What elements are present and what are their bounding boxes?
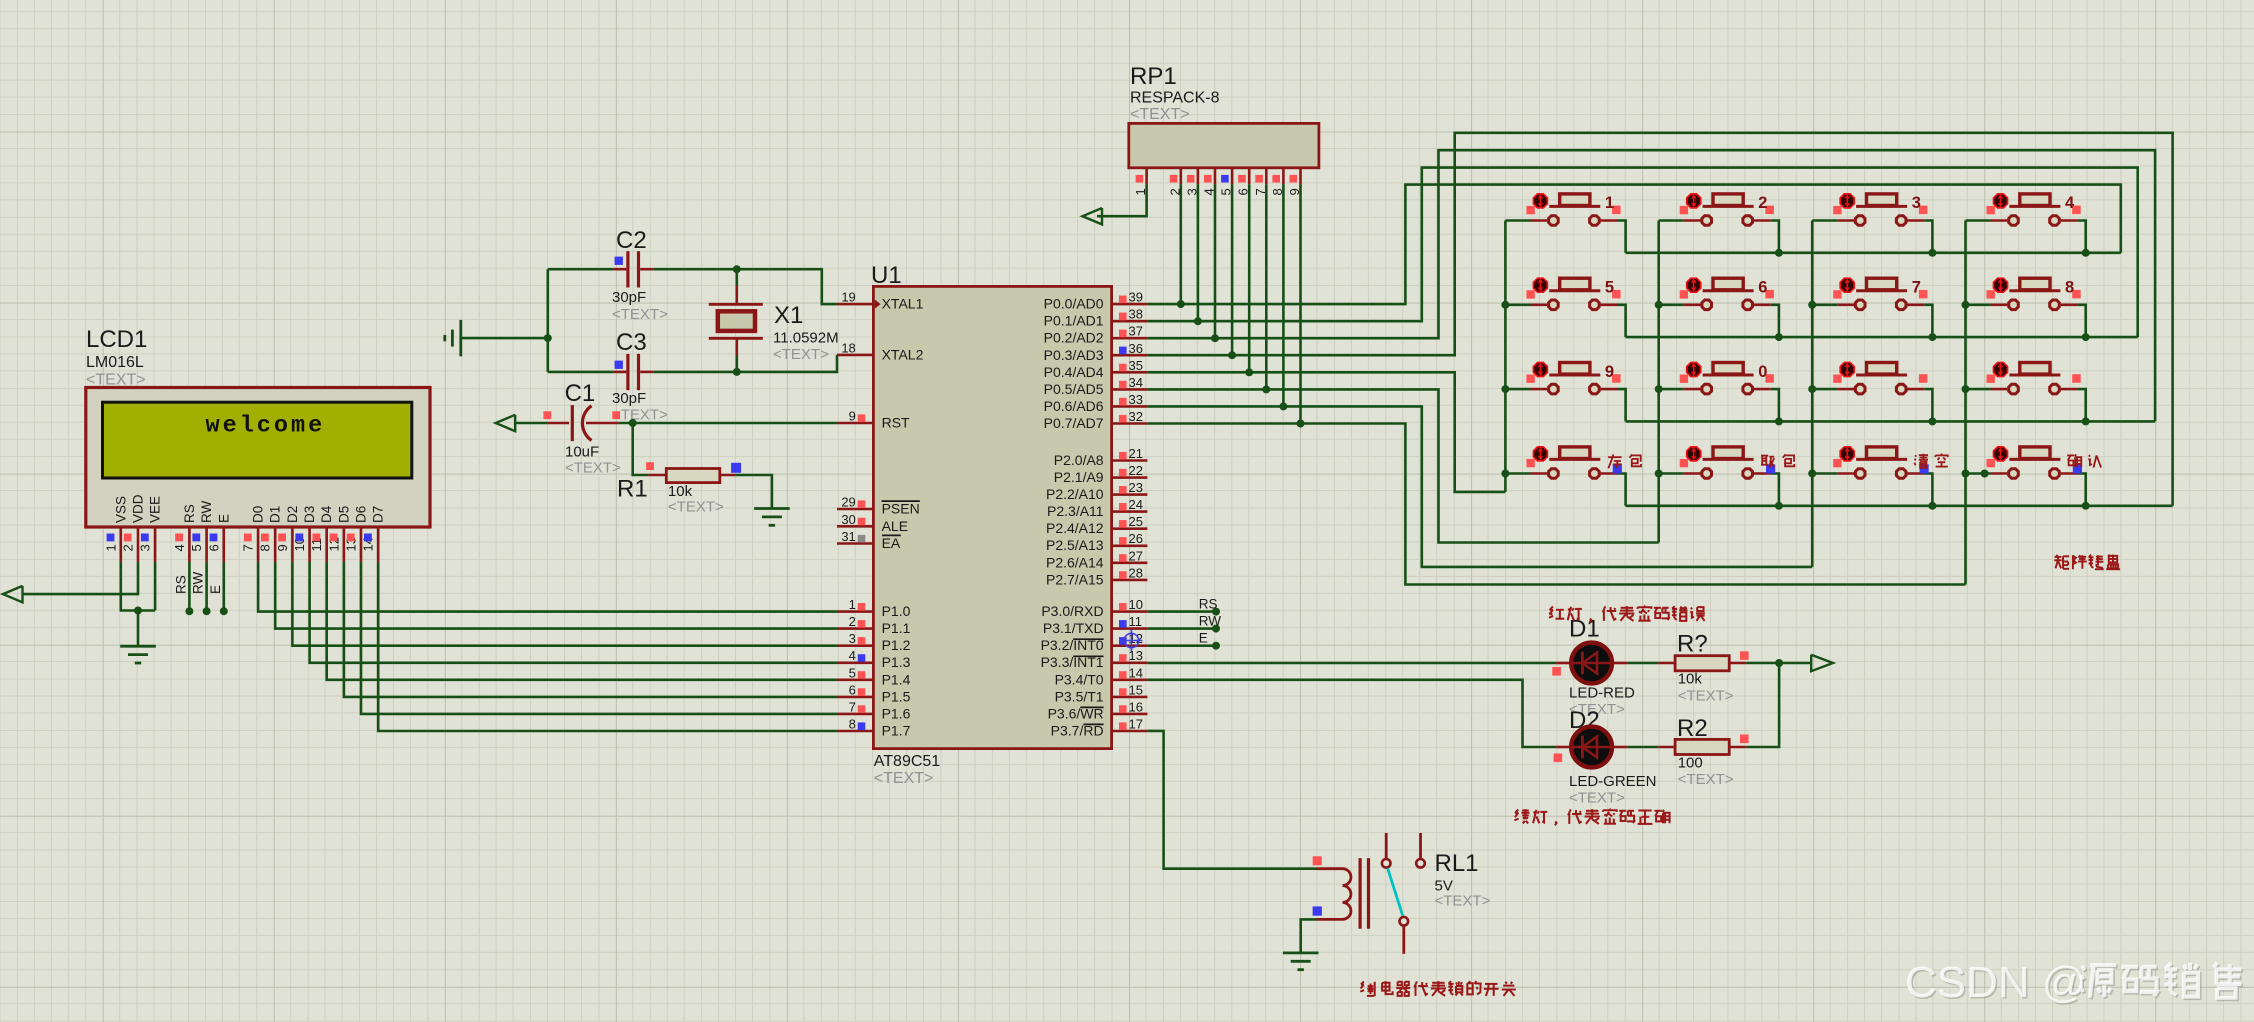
svg-text:VSS: VSS [113, 496, 128, 523]
wire D2 to R2 [1627, 746, 1658, 749]
svg-text:38: 38 [1129, 307, 1143, 322]
svg-text:E: E [1199, 631, 1208, 646]
svg-text:31: 31 [841, 529, 855, 544]
svg-text:P3.5/T1: P3.5/T1 [1055, 688, 1104, 704]
svg-text:welcome: welcome [206, 413, 326, 440]
svg-text:28: 28 [1129, 565, 1143, 580]
wire D1-R? net to arrow [1746, 662, 1811, 665]
svg-text:P1.5: P1.5 [882, 688, 911, 704]
svg-text:RS: RS [173, 575, 188, 594]
svg-text:P2.3/A11: P2.3/A11 [1047, 503, 1104, 519]
svg-text:RS: RS [182, 504, 197, 523]
svg-text:18: 18 [841, 340, 855, 355]
svg-text:LED-RED: LED-RED [1569, 685, 1635, 702]
svg-text:34: 34 [1129, 375, 1143, 390]
svg-text:5: 5 [189, 544, 204, 551]
push button row1 col1 label 1 [1505, 219, 1530, 222]
svg-text:2: 2 [121, 544, 136, 551]
RP1 pin 5 [1231, 168, 1234, 185]
wire LCD pin1 VSS to ground node [121, 562, 155, 611]
svg-text:16: 16 [1129, 699, 1143, 714]
svg-text:8: 8 [2065, 279, 2074, 297]
svg-text:9: 9 [275, 544, 290, 551]
svg-text:P1.4: P1.4 [882, 671, 911, 687]
wire LCD RW pin5 with net dot [205, 562, 208, 611]
wire P0.0 to keypad row1 [1147, 185, 2120, 305]
push button row2 col1 label 5 [1505, 303, 1530, 306]
wire P3.3 to LED D1 [1147, 662, 1556, 665]
wire C2 left to C3 left vertical [546, 269, 549, 372]
svg-text:D2: D2 [285, 506, 300, 523]
wires LCD D0-D7 to U1 P1.0-P1.7 [258, 562, 837, 612]
RP1 pin 4 [1214, 168, 1217, 185]
wire P0.3 to keypad row4 [1147, 133, 2172, 506]
U1 pins 39-32 P0.0-P0.7 [1112, 303, 1148, 306]
svg-text:P1.0: P1.0 [882, 603, 911, 619]
svg-text:5: 5 [1605, 279, 1614, 297]
svg-text:C2: C2 [616, 227, 647, 254]
svg-text:ALE: ALE [882, 518, 908, 534]
svg-text:E: E [208, 585, 223, 594]
svg-text:P2.5/A13: P2.5/A13 [1046, 537, 1104, 553]
svg-text:RW: RW [199, 500, 214, 523]
svg-text:P0.6/AD6: P0.6/AD6 [1044, 398, 1104, 414]
svg-text:10: 10 [1129, 597, 1143, 612]
wire P0.1 to keypad row2 [1147, 168, 2137, 338]
svg-text:R2: R2 [1677, 715, 1708, 742]
wire down to R1 [633, 423, 649, 475]
RP1 pin 7 [1265, 168, 1268, 185]
svg-text:9: 9 [1605, 363, 1614, 381]
svg-text:22: 22 [1129, 463, 1143, 478]
wire P0.5 to keypad column2 [1147, 389, 1658, 542]
svg-text:3: 3 [849, 631, 856, 646]
push button row3 col1 label 9 [1505, 388, 1530, 391]
svg-text:2: 2 [849, 614, 856, 629]
label matrix keyboard [2056, 555, 2058, 557]
wire LCD pin3 VEE down [154, 562, 157, 611]
svg-text:D6: D6 [354, 506, 369, 523]
svg-text:14: 14 [1129, 665, 1143, 680]
wires RP1 pins 2-9 to P0 bus [1180, 184, 1183, 304]
push button row2 col2 label 6 [1659, 303, 1684, 306]
svg-text:17: 17 [1129, 717, 1143, 732]
wire ground to capacitors [462, 337, 548, 340]
svg-text:<TEXT>: <TEXT> [1678, 688, 1734, 705]
wire D1 to R? [1627, 662, 1658, 665]
svg-text:LCD1: LCD1 [86, 326, 147, 353]
svg-text:7: 7 [241, 544, 256, 551]
U1 pin 18 XTAL2 [837, 354, 873, 357]
svg-text:5: 5 [849, 665, 856, 680]
svg-text:VDD: VDD [131, 494, 146, 523]
svg-text:<TEXT>: <TEXT> [612, 407, 668, 424]
ground below R1 [754, 507, 790, 510]
svg-text:P0.2/AD2: P0.2/AD2 [1044, 330, 1104, 346]
ground left of capacitors [459, 320, 462, 356]
XTAL1 clock input mark [875, 300, 881, 309]
svg-text:P0.3/AD3: P0.3/AD3 [1044, 347, 1104, 363]
annotation green LED meaning [1515, 809, 1518, 813]
svg-text:1: 1 [1605, 194, 1614, 212]
svg-text:30pF: 30pF [612, 289, 646, 306]
svg-text:P2.1/A9: P2.1/A9 [1054, 469, 1104, 485]
svg-text:26: 26 [1129, 531, 1143, 546]
wire P3.1 RW net [1147, 627, 1216, 630]
push button row4 col1 label 存包 [1505, 472, 1530, 475]
svg-text:P0.7/AD7: P0.7/AD7 [1044, 415, 1104, 431]
svg-text:P2.4/A12: P2.4/A12 [1046, 520, 1104, 536]
svg-text:100: 100 [1678, 755, 1703, 772]
power terminal arrow left of RP1 pin1 [1083, 208, 1103, 224]
U1 pin 9 RST [837, 422, 873, 425]
svg-text:<TEXT>: <TEXT> [612, 306, 668, 323]
svg-text:P0.5/AD5: P0.5/AD5 [1044, 381, 1104, 397]
svg-text:6: 6 [206, 544, 221, 551]
relay switch [1385, 833, 1388, 858]
svg-text:8: 8 [258, 544, 273, 551]
origin marker at pin 12 [1124, 633, 1138, 647]
svg-text:P2.7/A15: P2.7/A15 [1046, 571, 1104, 587]
wire C2 right to XTAL1 [654, 269, 837, 304]
svg-text:29: 29 [841, 495, 855, 510]
svg-text:11: 11 [1129, 614, 1143, 629]
svg-text:RESPACK-8: RESPACK-8 [1130, 90, 1220, 107]
power terminal arrow left of LCD [3, 586, 23, 602]
svg-text:<TEXT>: <TEXT> [874, 770, 934, 787]
wire P3.2 E net [1147, 644, 1216, 647]
ground below LCD [120, 645, 156, 648]
svg-text:4: 4 [172, 544, 187, 551]
power terminal arrow right [1811, 655, 1833, 671]
svg-text:PSEN: PSEN [882, 501, 920, 517]
wire P0.2 to keypad row3 [1147, 150, 2155, 421]
wire R1 to ground [736, 475, 772, 509]
svg-text:33: 33 [1129, 392, 1143, 407]
svg-text:VEE: VEE [148, 496, 163, 523]
U1 pins 10-17 P3.0-P3.7 [1112, 610, 1148, 613]
svg-text:XTAL2: XTAL2 [882, 346, 924, 362]
svg-text:LED-GREEN: LED-GREEN [1569, 773, 1657, 790]
U1 pins 1-8 P1.0-P1.7 [837, 610, 873, 613]
svg-text:D1: D1 [268, 506, 283, 523]
resistor R1 10k [646, 462, 654, 470]
svg-text:3: 3 [1912, 194, 1921, 212]
svg-text:4: 4 [849, 648, 856, 663]
push button row1 col4 label 4 [1966, 219, 1991, 222]
U1 pin 31 EA [837, 542, 873, 545]
svg-text:RL1: RL1 [1435, 850, 1479, 877]
RP1 pin 1 [1145, 168, 1148, 185]
svg-text:36: 36 [1129, 341, 1143, 356]
wire C2 left segment [548, 268, 614, 271]
svg-text:XTAL1: XTAL1 [882, 296, 924, 312]
keypad column lines [1504, 221, 1507, 492]
wire RP1 pin1 to power arrow [1097, 184, 1147, 216]
svg-text:35: 35 [1129, 358, 1143, 373]
extra junction row4 col4 [1981, 470, 1989, 478]
svg-text:9: 9 [849, 409, 856, 424]
svg-text:D3: D3 [302, 506, 317, 523]
svg-text:LM016L: LM016L [86, 354, 144, 371]
svg-text:<TEXT>: <TEXT> [1569, 790, 1625, 807]
svg-text:R?: R? [1677, 631, 1708, 658]
ground below relay [1283, 952, 1319, 955]
RP1 pin 8 [1282, 168, 1285, 185]
svg-text:D5: D5 [336, 506, 351, 523]
keypad row lines [1626, 252, 2121, 255]
wire P3.0 RS net [1147, 610, 1216, 613]
svg-text:6: 6 [1758, 279, 1767, 297]
svg-text:1: 1 [849, 597, 856, 612]
svg-text:19: 19 [841, 290, 855, 305]
svg-text:27: 27 [1129, 548, 1143, 563]
svg-text:24: 24 [1129, 497, 1143, 512]
svg-text:P1.1: P1.1 [882, 620, 911, 636]
svg-text:3: 3 [138, 544, 153, 551]
svg-text:32: 32 [1129, 409, 1143, 424]
svg-text:X1: X1 [774, 302, 803, 329]
svg-text:P1.2: P1.2 [882, 637, 911, 653]
svg-text:P1.6: P1.6 [882, 705, 911, 721]
svg-text:11.0592M: 11.0592M [773, 330, 839, 347]
svg-text:D7: D7 [371, 506, 386, 523]
svg-text:P0.0/AD0: P0.0/AD0 [1044, 296, 1104, 312]
svg-text:RW: RW [1199, 614, 1222, 629]
svg-text:D4: D4 [319, 505, 334, 523]
svg-text:RW: RW [191, 571, 206, 594]
wire C3 right to XTAL2 [654, 355, 837, 372]
svg-text:P3.4/T0: P3.4/T0 [1055, 671, 1104, 687]
svg-text:<TEXT>: <TEXT> [1435, 893, 1491, 910]
U1 pin 30 ALE [837, 525, 873, 528]
RP1 pin 2 [1180, 168, 1183, 185]
svg-text:15: 15 [1129, 682, 1143, 697]
wire relay coil to ground [1301, 919, 1317, 953]
svg-text:10uF: 10uF [565, 444, 599, 461]
svg-text:23: 23 [1129, 480, 1143, 495]
svg-text:<TEXT>: <TEXT> [1130, 106, 1190, 123]
svg-text:P3.0/RXD: P3.0/RXD [1041, 603, 1103, 619]
svg-text:R1: R1 [617, 476, 648, 503]
push button row1 col3 label 3 [1812, 219, 1837, 222]
svg-text:P0.1/AD1: P0.1/AD1 [1044, 313, 1104, 329]
svg-text:P2.2/A10: P2.2/A10 [1046, 486, 1104, 502]
svg-text:P0.4/AD4: P0.4/AD4 [1044, 364, 1104, 380]
svg-text:RST: RST [882, 415, 910, 431]
overlines INT0 INT1 WR RD [1073, 638, 1103, 640]
svg-text:1: 1 [103, 544, 118, 551]
wire junction down to R2 [1746, 663, 1779, 747]
push button row3 col2 label 0 [1659, 388, 1684, 391]
push button row4 col2 label 取包 [1659, 472, 1684, 475]
svg-text:C3: C3 [616, 329, 647, 356]
U1 pins 21-28 P2.0-P2.7 [1112, 459, 1148, 462]
push button row2 col4 label 8 [1966, 303, 1991, 306]
svg-text:25: 25 [1129, 514, 1143, 529]
wire P3.7 to relay coil [1147, 731, 1316, 869]
U1 pin 29 PSEN [837, 508, 873, 511]
relay core [1358, 858, 1361, 929]
wire P0.4 to keypad column1 [1147, 372, 1505, 492]
svg-text:4: 4 [2065, 194, 2075, 212]
svg-text:C1: C1 [565, 380, 596, 407]
svg-text:39: 39 [1129, 290, 1143, 305]
svg-text:<TEXT>: <TEXT> [773, 346, 829, 363]
junction ground stem [134, 607, 142, 615]
svg-text:21: 21 [1129, 446, 1143, 461]
LCD screen showing welcome [103, 402, 412, 478]
push button row4 col3 label 清空 [1812, 472, 1837, 475]
svg-text:10k: 10k [668, 483, 693, 500]
svg-text:P1.7: P1.7 [882, 723, 911, 739]
svg-text:10k: 10k [1678, 671, 1703, 688]
svg-text:0: 0 [1758, 363, 1767, 381]
svg-text:<TEXT>: <TEXT> [1678, 771, 1734, 788]
wire RST line to U1 pin 9 [619, 422, 837, 425]
push button row4 col4 label 确认 [1966, 472, 1991, 475]
svg-text:7: 7 [1912, 279, 1921, 297]
push button row2 col3 label 7 [1812, 303, 1837, 306]
svg-text:<TEXT>: <TEXT> [565, 459, 621, 476]
wire P3.4 to LED D2 [1147, 680, 1556, 747]
push button row3 col3 [1812, 388, 1837, 391]
svg-text:6: 6 [849, 682, 856, 697]
svg-text:P3.1/TXD: P3.1/TXD [1043, 620, 1104, 636]
wire P0.6 to keypad column3 [1147, 406, 1812, 567]
crystal X1 11.0592M [735, 286, 738, 304]
wire P0.7 to keypad column4 [1147, 424, 1965, 585]
LCD pin stubs 1-14 [120, 527, 123, 562]
svg-text:U1: U1 [871, 262, 902, 289]
push button row3 col4 [1966, 388, 1991, 391]
svg-text:RS: RS [1199, 597, 1218, 612]
relay RL1 5V [1313, 856, 1322, 865]
svg-text:37: 37 [1129, 324, 1143, 339]
RP1 pin 6 [1248, 168, 1251, 185]
annotation relay is lock switch [1361, 981, 1364, 984]
RP1 pin 9 [1299, 168, 1302, 185]
svg-text:7: 7 [849, 699, 856, 714]
svg-text:<TEXT>: <TEXT> [668, 499, 724, 516]
svg-text:P2.0/A8: P2.0/A8 [1054, 452, 1104, 468]
svg-text:AT89C51: AT89C51 [874, 753, 941, 770]
wire LCD E pin6 with net dot [223, 562, 226, 611]
svg-text:P2.6/A14: P2.6/A14 [1046, 554, 1104, 570]
svg-text:30pF: 30pF [612, 390, 646, 407]
svg-text:8: 8 [849, 717, 856, 732]
svg-text:CSDN @: CSDN @ [1905, 958, 2087, 1007]
svg-text:D0: D0 [251, 506, 266, 523]
push button row1 col2 label 2 [1659, 219, 1684, 222]
svg-text:RP1: RP1 [1130, 63, 1177, 90]
svg-text:30: 30 [841, 512, 855, 527]
wire LCD RS pin4 with net dot [188, 562, 191, 611]
RP1 pin 3 [1197, 168, 1200, 185]
wire LCD pin2 VDD to power arrow [22, 562, 138, 594]
svg-text:EA: EA [882, 535, 901, 551]
svg-text:P1.3: P1.3 [882, 654, 911, 670]
wire C3 left segment [548, 371, 614, 374]
annotation red LED meaning [1550, 606, 1553, 610]
svg-text:2: 2 [1758, 194, 1767, 212]
U1 pin 19 XTAL1 [837, 303, 873, 306]
svg-text:E: E [216, 514, 231, 523]
power terminal arrow RST net [496, 415, 516, 431]
